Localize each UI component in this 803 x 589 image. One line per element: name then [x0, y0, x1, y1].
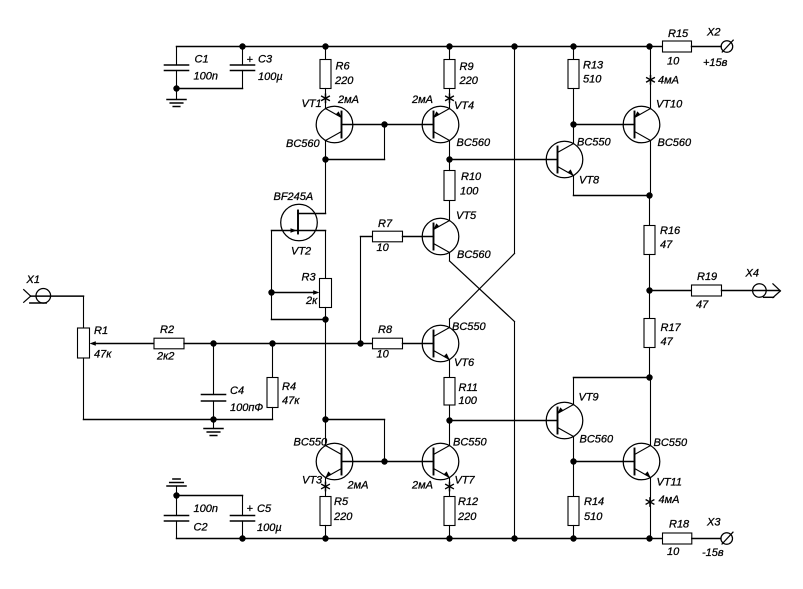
junction C3 top — [239, 43, 245, 49]
ground middle (C4) — [213, 420, 215, 429]
svg-text:VT3: VT3 — [302, 475, 323, 487]
svg-text:10: 10 — [377, 242, 390, 254]
current label 4mA VT10 asterisk — [650, 76, 652, 84]
resistor R6 — [325, 47, 327, 60]
transistor VT3 — [316, 443, 353, 480]
wire VT2 gate down — [271, 231, 273, 293]
svg-text:510: 510 — [584, 511, 603, 523]
wire VT5 emitter to R10 — [449, 201, 451, 221]
svg-text:100: 100 — [460, 186, 479, 198]
svg-text:47к: 47к — [94, 349, 112, 361]
wire -15V bottom rail — [177, 538, 650, 540]
transistor VT5 — [422, 218, 459, 255]
svg-text:BC560: BC560 — [457, 249, 492, 261]
junction VT11 emitter rail — [646, 535, 652, 541]
svg-text:X4: X4 — [745, 268, 759, 280]
svg-text:R13: R13 — [583, 60, 604, 72]
junction R9 top — [446, 43, 452, 49]
svg-text:BC550: BC550 — [452, 321, 487, 333]
svg-text:VT6: VT6 — [454, 357, 475, 369]
wire signal line R2 to R8 — [184, 343, 373, 345]
junction VT10 collector / R16 — [646, 192, 652, 198]
svg-text:R8: R8 — [378, 324, 393, 336]
wire VT3 emitter to R5 — [325, 478, 327, 497]
wire X1 to R1 — [31, 295, 84, 297]
svg-text:2мА: 2мА — [347, 480, 369, 492]
capacitor C5 (electrolytic) — [242, 496, 244, 516]
junction C5 bottom — [239, 535, 245, 541]
resistor R7 — [373, 231, 403, 242]
svg-text:100µ: 100µ — [257, 522, 282, 534]
wire VT3 diode connection — [326, 419, 385, 421]
resistor R11 — [444, 378, 455, 406]
junction VT2 gate / R3 wiper — [268, 289, 274, 295]
junction VT4 collector / R10 — [446, 156, 452, 162]
svg-text:2к: 2к — [305, 295, 318, 307]
potentiometer R3 — [320, 279, 332, 308]
capacitor C2 — [176, 496, 178, 516]
svg-text:2мА: 2мА — [337, 94, 359, 106]
junction R17/VT9 emitter/VT11 collector — [646, 374, 652, 380]
svg-text:4мА: 4мА — [658, 75, 679, 87]
svg-text:100n: 100n — [194, 71, 218, 83]
svg-text:R11: R11 — [459, 382, 478, 394]
svg-text:R3: R3 — [302, 272, 317, 284]
svg-text:C4: C4 — [230, 385, 244, 397]
ground bottom-left — [167, 485, 186, 487]
junction VT3/VT7 base tie — [381, 458, 387, 464]
wire R1 wiper from R2 — [96, 343, 155, 345]
svg-text:2мА: 2мА — [411, 480, 433, 492]
wire R3 wiper — [272, 292, 315, 294]
junction R3 bottom — [322, 316, 328, 322]
svg-text:100: 100 — [459, 395, 478, 407]
wire VT9 emitter — [573, 378, 575, 405]
wire VT1 collector — [325, 141, 327, 160]
wire VT10 emitter to rail — [650, 47, 652, 109]
svg-text:100µ: 100µ — [258, 71, 283, 83]
junction R6 top — [322, 43, 328, 49]
wire gate to R3 bottom — [271, 293, 273, 320]
resistor R18 — [650, 538, 663, 540]
svg-text:VT1: VT1 — [302, 98, 322, 110]
svg-text:VT9: VT9 — [579, 392, 599, 404]
resistor R8 — [373, 338, 403, 349]
junction crossover top rail — [511, 43, 517, 49]
junction crossover bottom rail — [511, 535, 517, 541]
wire VT6 collector to positive rail (crossover) — [449, 319, 451, 328]
svg-text:BF245A: BF245A — [274, 191, 314, 203]
svg-text:R12: R12 — [458, 496, 478, 508]
svg-text:R15: R15 — [668, 28, 689, 40]
svg-text:C3: C3 — [258, 54, 273, 66]
junction R13 top — [570, 43, 576, 49]
svg-text:R5: R5 — [334, 496, 349, 508]
resistor R16 — [649, 196, 651, 226]
svg-text:BC560: BC560 — [580, 434, 615, 446]
wire VT10 base — [574, 124, 635, 126]
svg-text:C1: C1 — [195, 54, 209, 66]
transistor VT6 — [422, 325, 459, 362]
junction VT1 collector node — [322, 156, 328, 162]
wire ground to C5 top — [177, 495, 243, 497]
junction signal/R7 branch — [357, 340, 363, 346]
wire VT11 emitter to rail — [650, 478, 652, 539]
resistor R9 — [449, 47, 451, 60]
wire VT6 emitter to R11 — [449, 360, 451, 378]
junction C1/C3 ground node — [173, 85, 179, 91]
svg-text:BC550: BC550 — [654, 437, 689, 449]
junction R11/VT7 collector/VT9 base — [446, 417, 452, 423]
svg-text:BC550: BC550 — [294, 437, 329, 449]
resistor R14 — [573, 462, 575, 497]
svg-text:VT8: VT8 — [579, 175, 600, 187]
wire VT4 collector — [449, 141, 451, 160]
transistor VT10 — [623, 106, 660, 143]
wire R7 branch — [360, 237, 362, 344]
transistor VT4 — [422, 106, 459, 143]
svg-text:BC560: BC560 — [286, 138, 321, 150]
wire C3 bottom to C1 bottom — [177, 88, 243, 90]
resistor R17 — [649, 291, 651, 319]
junction VT1 base-collector tie — [381, 121, 387, 127]
svg-text:R6: R6 — [336, 61, 351, 73]
current label 4mA VT11 asterisk — [649, 498, 651, 506]
svg-text:R17: R17 — [661, 322, 682, 334]
wire VT1 diode connection — [384, 125, 386, 160]
svg-text:VT7: VT7 — [455, 475, 476, 487]
svg-text:C2: C2 — [194, 522, 208, 534]
svg-text:+: + — [247, 503, 254, 515]
transistor VT8 — [546, 141, 583, 178]
resistor R5 — [320, 497, 331, 526]
svg-text:BC550: BC550 — [453, 437, 488, 449]
capacitor C3 (electrolytic) — [242, 47, 244, 66]
transistor VT7 — [422, 443, 459, 480]
current label 2mA VT4 asterisk — [449, 94, 451, 102]
svg-text:R9: R9 — [460, 61, 474, 73]
junction C2/C5 ground node — [173, 492, 179, 498]
capacitor C4 — [213, 344, 215, 395]
svg-text:X2: X2 — [706, 27, 720, 39]
svg-text:10: 10 — [377, 349, 390, 361]
junction R14 bottom — [570, 535, 576, 541]
resistor R10 — [444, 171, 455, 201]
resistor R12 — [444, 497, 455, 526]
svg-text:R18: R18 — [669, 519, 690, 531]
wire VT9 collector — [573, 437, 575, 462]
svg-text:BC560: BC560 — [658, 137, 693, 149]
svg-text:VT10: VT10 — [656, 99, 683, 111]
svg-text:VT2: VT2 — [291, 246, 311, 258]
wire VT10 collector — [650, 141, 652, 196]
svg-text:220: 220 — [459, 75, 479, 87]
svg-text:10: 10 — [667, 546, 680, 558]
wire VT11 base — [574, 461, 635, 463]
svg-text:BC550: BC550 — [577, 137, 612, 149]
junction VT3 collector node — [322, 416, 328, 422]
junction VT9 collector / R14 / VT11 base — [570, 458, 576, 464]
wire VT8 base — [450, 159, 558, 161]
svg-text:R16: R16 — [660, 225, 681, 237]
svg-text:R19: R19 — [697, 271, 717, 283]
resistor R4 — [272, 344, 274, 378]
svg-text:-15в: -15в — [702, 547, 724, 559]
svg-text:BC560: BC560 — [457, 137, 492, 149]
wire R1 bottom to ground line — [83, 358, 85, 420]
svg-text:47: 47 — [661, 336, 674, 348]
svg-text:R14: R14 — [584, 496, 604, 508]
resistor R15 — [650, 46, 663, 48]
svg-text:+15в: +15в — [703, 57, 728, 69]
wire VT9 base — [450, 420, 558, 422]
wire +15V top rail — [177, 46, 650, 48]
svg-text:2мА: 2мА — [411, 94, 433, 106]
wire R3 bottom to VT3 collector — [325, 320, 327, 420]
wire VT11 collector — [650, 378, 652, 446]
junction signal/C4 — [210, 340, 216, 346]
resistor R13 — [573, 47, 575, 60]
svg-text:VT11: VT11 — [657, 477, 682, 489]
wire VT2 source to R3 — [325, 231, 327, 279]
svg-text:+: + — [247, 54, 254, 66]
junction VT10 emitter rail — [646, 43, 652, 49]
wire VT5 collector to negative rail (crossover) — [449, 253, 451, 262]
svg-text:47к: 47к — [282, 395, 300, 407]
svg-text:10: 10 — [667, 56, 680, 68]
svg-text:R10: R10 — [461, 171, 482, 183]
capacitor C1 — [176, 47, 178, 66]
svg-text:100n: 100n — [194, 503, 218, 515]
svg-text:510: 510 — [583, 74, 602, 86]
transistor VT9 — [546, 402, 583, 439]
transistor VT11 — [623, 443, 660, 480]
svg-text:X1: X1 — [26, 274, 40, 286]
wire VT8 emitter to R16 node — [573, 176, 575, 196]
current label 2mA VT7 asterisk — [449, 482, 451, 490]
wire VT1 collector to VT2 drain — [325, 160, 327, 214]
wire VT1 base to VT4 base — [342, 124, 434, 126]
current label 2mA VT3 asterisk — [325, 482, 327, 490]
svg-text:R7: R7 — [378, 218, 393, 230]
transistor VT1 — [316, 106, 353, 143]
wire VT8 collector — [573, 125, 575, 144]
svg-text:4мА: 4мА — [659, 494, 680, 506]
svg-text:47: 47 — [660, 239, 673, 251]
svg-text:220: 220 — [334, 75, 354, 87]
resistor R2 — [154, 338, 184, 349]
svg-text:R1: R1 — [94, 325, 108, 337]
transistor VT2 (JFET BF245A) — [281, 204, 318, 241]
svg-text:R4: R4 — [282, 381, 296, 393]
wire VT3 base to VT7 base — [342, 461, 434, 463]
wire VT7 emitter to R12 — [449, 478, 451, 497]
svg-text:C5: C5 — [257, 503, 272, 515]
svg-text:R2: R2 — [160, 324, 174, 336]
svg-text:X3: X3 — [706, 517, 721, 529]
junction R12 bottom — [446, 535, 452, 541]
junction R5 bottom — [322, 535, 328, 541]
svg-text:VT5: VT5 — [456, 210, 477, 222]
wire VT3 collector — [325, 420, 327, 446]
svg-text:220: 220 — [333, 511, 353, 523]
ground top-left — [176, 89, 178, 100]
svg-text:2к2: 2к2 — [156, 351, 174, 363]
svg-text:100пФ: 100пФ — [230, 402, 263, 414]
junction signal/R4 — [269, 340, 275, 346]
resistor R19 — [650, 290, 692, 292]
junction output node — [646, 287, 652, 293]
svg-text:VT4: VT4 — [454, 100, 474, 112]
svg-text:47: 47 — [696, 299, 709, 311]
junction ground line at C4 — [210, 416, 216, 422]
junction R13/VT8 collector/VT10 base — [570, 121, 576, 127]
wire VT7 collector — [449, 421, 451, 446]
current label 2mA VT1 asterisk — [325, 94, 327, 102]
potentiometer R1 — [78, 328, 90, 358]
svg-text:220: 220 — [457, 511, 477, 523]
